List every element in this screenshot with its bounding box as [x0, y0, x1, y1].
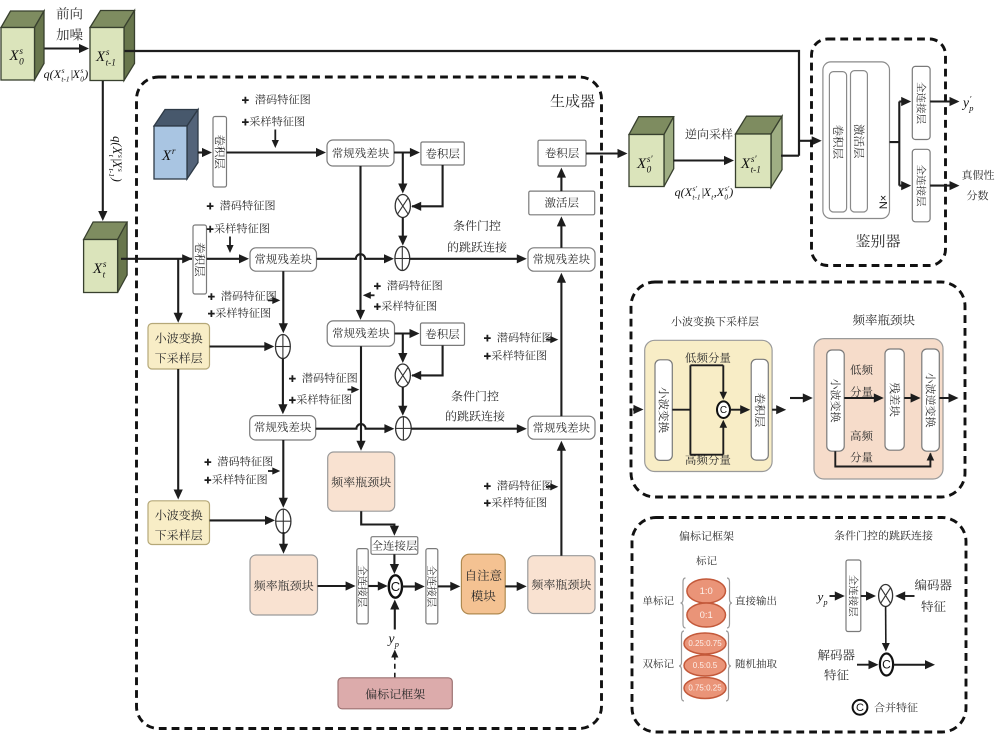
label L2 +潜码特征图 — [207, 200, 275, 210]
svg-text:X: X — [92, 261, 103, 277]
label 前向 — [57, 7, 83, 19]
conv layer box row1 (vertical) — [213, 117, 227, 188]
label 标记 — [696, 556, 716, 566]
svg-text:t-1: t-1 — [692, 193, 700, 202]
oplus left1 — [276, 335, 291, 359]
wire junction down to otimes mid — [402, 334, 404, 356]
svg-text:C: C — [856, 702, 864, 714]
wire wavelet2->oplus2 — [210, 519, 268, 521]
wire oplus row4 -> RRB row4-right — [411, 428, 519, 430]
discriminator dashed frame — [812, 39, 946, 266]
cube Xt-1^s — [90, 11, 135, 28]
label 条件门控的跳跃连接 title — [834, 530, 932, 540]
otimes legend — [879, 585, 893, 607]
cube X0^s' (generated) — [629, 117, 674, 135]
arrow C out legend2 — [893, 664, 927, 666]
fully-connected vertical box left — [357, 549, 368, 624]
ellipse 0:1 — [687, 603, 726, 627]
arrow y_p up to C — [394, 608, 396, 630]
residual block row2-right — [528, 248, 595, 271]
svg-text:t-1: t-1 — [107, 169, 116, 178]
wavelet downsample box 1 — [148, 324, 210, 370]
legend freq bottleneck big peach box — [814, 339, 943, 479]
partial-label framework box — [338, 678, 452, 709]
arrow otimes mid->oplus row4 — [402, 387, 404, 408]
cube Xt^s — [84, 222, 128, 240]
svg-text:X: X — [716, 185, 725, 199]
arrow C -> conv legend — [730, 409, 742, 411]
cube Xt-1^s' (denoised) — [736, 116, 783, 134]
legend FBB wavelet transform box — [827, 350, 844, 451]
label 条件门控 row2 — [454, 220, 501, 231]
svg-text:X: X — [9, 48, 20, 64]
svg-text:t-1: t-1 — [751, 166, 761, 176]
residual block row2-left — [250, 248, 317, 271]
label 的跳跃连接 row4 — [446, 410, 504, 421]
wire RRB1 down to RRB mid — [359, 166, 361, 312]
legend wavelet loop wires — [672, 365, 723, 454]
frequency bottleneck block mid — [328, 452, 395, 511]
discriminator inner container — [823, 62, 890, 219]
wire activation up to conv top — [560, 176, 562, 192]
wire conv mid down-left to otimes mid — [412, 345, 443, 375]
cube X0^s (input spectrogram) — [1, 11, 44, 28]
otimes gate mid — [395, 364, 410, 387]
label 真假性 — [962, 170, 994, 180]
label L4 +潜码特征图 — [374, 280, 442, 290]
arrow out of wavelet legend — [772, 409, 778, 411]
arrow to y_p' — [930, 100, 951, 102]
svg-text:t-1: t-1 — [106, 59, 116, 69]
wire RRBmid->conv mid — [395, 332, 412, 334]
label 特征 enc — [921, 601, 945, 612]
brace left double — [679, 631, 684, 701]
wire conv1b down-left to otimes1 — [412, 165, 443, 206]
label L2 +采样特征图 — [207, 223, 269, 233]
svg-text:s: s — [106, 48, 110, 58]
svg-text:y: y — [816, 589, 824, 604]
arrow Xt-1 down to Xt — [102, 81, 104, 213]
conv layer box row2 (vertical) — [193, 225, 207, 294]
label 条件门控 row4 — [452, 390, 499, 401]
conv layer box discriminator — [829, 72, 846, 212]
svg-text:X: X — [72, 67, 81, 81]
arrow decoder->C — [857, 664, 871, 666]
arrow L2 down — [229, 237, 231, 247]
wire RRB row4-left down to oplus2 — [282, 440, 284, 500]
fully-connected layer horizontal box — [371, 537, 418, 555]
conv layer box mid — [421, 323, 465, 345]
arrow otimes1->oplus row2 — [402, 218, 404, 238]
wire top long line to discriminator — [125, 51, 800, 156]
wire conv1->RRB1 — [227, 151, 319, 153]
label L3 +采样特征图 — [208, 308, 270, 318]
arrow L4 left — [369, 294, 374, 296]
wire RRB row4-left -> oplus row4 with hop — [316, 424, 388, 429]
svg-text:0: 0 — [724, 193, 728, 202]
label 小波变换下采样层 title — [671, 316, 758, 326]
label L1 +采样特征图 — [242, 116, 304, 126]
svg-text:×N: ×N — [877, 195, 889, 209]
svg-text:0:1: 0:1 — [700, 610, 713, 621]
arrow SA -> FBB right — [505, 585, 519, 587]
svg-text:y: y — [387, 631, 395, 646]
wire FBBleft -> FCv left — [318, 585, 348, 587]
legend1 dashed frame — [631, 282, 965, 497]
svg-text:C: C — [391, 579, 400, 594]
svg-text:): ) — [83, 67, 88, 81]
wire oplus2 down to FBB left — [282, 532, 284, 546]
arrow FC horiz down to C — [393, 554, 395, 566]
wire wavelet1 down to wavelet2 — [177, 369, 179, 492]
svg-text:′: ′ — [970, 95, 972, 104]
svg-text:y: y — [961, 95, 969, 110]
label 生成器 — [551, 94, 595, 108]
legend inverse wavelet box — [922, 349, 940, 451]
wire Xt out with junction — [121, 258, 192, 260]
label q(Xt|Xt-1) rotated — [107, 136, 125, 182]
svg-text:s: s — [103, 260, 107, 270]
label 单标记 — [643, 596, 674, 606]
wire Xt-1s' to discriminator — [781, 155, 799, 157]
svg-text:s: s — [116, 169, 125, 172]
label 解码器 — [818, 649, 855, 661]
ellipse 0.75:0.25 — [684, 678, 726, 699]
label 分量 legend b — [850, 452, 872, 463]
label 直接输出 — [735, 596, 776, 606]
arrow FCvleft -> C — [368, 585, 380, 587]
oplus row4 — [396, 417, 412, 440]
label 的跳跃连接 row2 — [448, 241, 506, 252]
brace left single — [681, 578, 686, 628]
svg-text:t-1: t-1 — [61, 75, 69, 84]
label 低频 legend — [850, 364, 872, 375]
concat node C generator — [389, 575, 402, 597]
fully-connected box d2 — [912, 149, 930, 222]
legend wavelet transform box — [655, 360, 672, 461]
residual block mid — [327, 321, 394, 346]
wire RRBmid down to FBB mid — [360, 346, 362, 443]
arrow L5 right — [546, 339, 552, 341]
wire conv2->RRB2 — [207, 258, 242, 260]
label L3 +潜码特征图 — [208, 291, 276, 301]
wire oplus1 down to RRB row4-left — [282, 359, 284, 407]
label 双标记 — [643, 659, 674, 669]
arrow out of FBB legend — [939, 397, 950, 399]
svg-text:p: p — [394, 640, 399, 649]
label L4 +采样特征图 — [374, 301, 436, 311]
frequency bottleneck block right — [528, 556, 595, 614]
label 偏标记框架 title — [679, 531, 733, 541]
label 分数 — [967, 190, 988, 200]
label 随机抽取 — [736, 659, 777, 669]
svg-text:): ) — [110, 177, 124, 182]
label 低频分量 — [685, 352, 730, 363]
fully-connected box d1 — [912, 66, 930, 139]
svg-text:p: p — [968, 104, 973, 113]
label L8 +采样特征图 — [484, 497, 546, 507]
activation layer box — [529, 191, 595, 215]
concat node C legend2 — [880, 654, 893, 676]
legend FC box — [846, 560, 861, 632]
arrow otimes down to C legend — [885, 607, 887, 645]
arrow L1 down — [274, 130, 276, 142]
activation layer box discriminator — [851, 71, 868, 212]
arrow C -> FCv right — [402, 585, 417, 587]
label 编码器 — [915, 579, 952, 591]
label 频率瓶颈块 title — [853, 314, 915, 326]
wire discriminator split — [890, 102, 900, 186]
svg-text:0.75:0.25: 0.75:0.25 — [688, 684, 722, 693]
svg-text:C: C — [882, 658, 891, 672]
svg-text:X: X — [740, 156, 751, 172]
wire RRB row4-right up to RRB row2-right — [560, 281, 562, 416]
wire wavelet1->oplus1 — [210, 345, 267, 347]
oplus left2 — [276, 509, 291, 533]
label L6 +采样特征图 — [205, 474, 267, 484]
wire FBBright up to RRB row4-right — [560, 449, 562, 556]
svg-text:t: t — [103, 271, 106, 281]
ellipse 1:0 — [687, 579, 726, 603]
legend2 dashed frame — [632, 518, 966, 733]
dashed arrow from PLL framework to y_p — [394, 653, 396, 678]
cube X^r (reference) — [154, 110, 198, 127]
frequency bottleneck block left — [250, 555, 318, 615]
label 高频 legend — [851, 430, 873, 441]
arrow FC->otimes legend — [861, 595, 868, 597]
arrow encoder->otimes — [903, 595, 914, 597]
label 鉴别器 — [856, 234, 900, 248]
arrow into legend wavelet — [633, 408, 636, 410]
label 加噪 — [56, 28, 82, 40]
oplus row2 — [395, 247, 410, 271]
svg-text:s: s — [19, 47, 23, 57]
wire RRB2->oplus row2 with hop — [317, 254, 388, 259]
conv layer box row1b — [421, 142, 464, 165]
svg-text:0.25:0.75: 0.25:0.75 — [688, 639, 722, 648]
generator dashed frame — [137, 77, 602, 729]
label L7 +潜码特征图 — [289, 373, 357, 383]
wire junction down to wavelet1 — [177, 259, 179, 315]
wavelet downsample box 2 — [148, 501, 210, 545]
label 高频分量 — [686, 454, 731, 465]
arrow into discriminator — [799, 140, 814, 142]
arrow residual->IWT legend — [904, 397, 912, 399]
ellipse 0.25:0.75 — [684, 633, 726, 654]
label L5 +潜码特征图 — [484, 332, 552, 342]
svg-text:X: X — [161, 148, 172, 164]
label 分量 legend a — [850, 386, 872, 397]
brace right double — [726, 631, 731, 701]
label L7 +采样特征图 — [289, 394, 351, 404]
svg-text:p: p — [823, 598, 828, 607]
legend conv layer box — [751, 359, 768, 460]
residual block row4-left — [250, 416, 316, 440]
svg-text:s′: s′ — [751, 155, 758, 165]
self-attention module box — [461, 554, 505, 614]
legend wavelet big yellow box — [645, 340, 772, 471]
label 特征 dec — [824, 669, 848, 680]
ellipse 0.5:0.5 — [684, 655, 726, 676]
arrow L3 right — [268, 299, 274, 301]
wire oplus row2 -> RRB row2-right — [410, 258, 519, 260]
arrow Xr->conv1 — [198, 151, 204, 153]
legend FBB bottom wire — [835, 451, 930, 466]
arrow L8 right — [546, 486, 552, 488]
wire junction down to otimes1 — [402, 153, 404, 186]
svg-text:0: 0 — [19, 58, 24, 68]
svg-text:X: X — [636, 156, 647, 172]
otimes gate row1 — [395, 195, 410, 218]
brace right single — [727, 578, 732, 628]
concat node C symbol key — [853, 700, 868, 715]
svg-text:X: X — [95, 49, 106, 65]
svg-text:s′: s′ — [647, 155, 654, 165]
wire RRB1->conv row1 — [394, 151, 412, 153]
svg-text:1:0: 1:0 — [700, 586, 713, 597]
arrow X0s'->Xt-1s' — [674, 159, 727, 161]
wire FBBmid -> FC horizontal — [361, 511, 394, 529]
arrow L6 right — [268, 470, 274, 472]
arrow X0->Xt-1 — [45, 47, 82, 49]
label L1 +潜码特征图 — [242, 94, 310, 104]
wire RRB row2-right up to activation — [560, 224, 562, 247]
svg-text:0.5:0.5: 0.5:0.5 — [693, 661, 718, 670]
label L5 +采样特征图 — [484, 350, 546, 360]
legend residual box — [885, 349, 904, 450]
wire RRB2 down to oplus1 — [282, 271, 284, 325]
arrow to authenticity score — [930, 185, 951, 187]
svg-text:0: 0 — [647, 166, 652, 176]
arrow yp->FC legend — [830, 595, 837, 597]
arrow conv top -> X0s' — [586, 152, 620, 154]
label L8 +潜码特征图 — [484, 480, 552, 490]
svg-text:C: C — [720, 405, 727, 416]
arrow L7 right — [348, 389, 353, 391]
arrow WT->residual legend — [844, 397, 876, 399]
label L6 +潜码特征图 — [205, 456, 273, 466]
svg-text:X: X — [684, 185, 693, 199]
arrow FCvright -> self-attention — [438, 585, 453, 587]
residual block row4-right — [528, 416, 595, 439]
svg-text:X: X — [53, 67, 62, 81]
svg-text:): ) — [728, 185, 733, 199]
conv layer box top-right — [538, 140, 586, 166]
arrow into freq bottleneck legend — [790, 397, 805, 399]
svg-text:X: X — [703, 185, 712, 199]
label 合并特征 — [874, 702, 917, 712]
label 逆向采样 — [685, 128, 732, 139]
svg-text:r: r — [172, 147, 176, 157]
residual block row1 — [327, 140, 394, 166]
fully-connected vertical box right — [426, 549, 438, 624]
concat node C legend1 — [717, 401, 730, 418]
